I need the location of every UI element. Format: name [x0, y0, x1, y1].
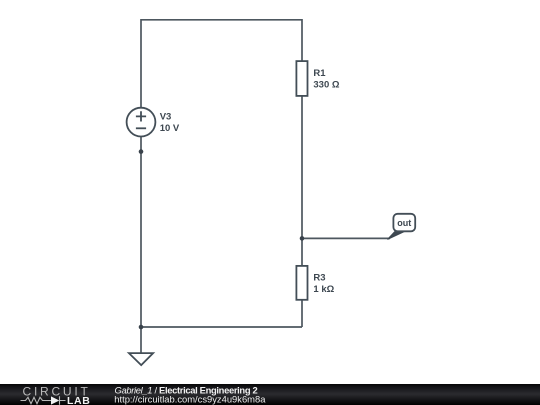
node junction bottom left	[139, 325, 144, 330]
net flag out pointer	[388, 231, 407, 240]
label R3 1 kohm	[313, 272, 334, 295]
label V3 10 V	[160, 111, 180, 134]
label R1 330 ohm	[313, 68, 339, 91]
wire left vertical upper	[140, 19, 142, 108]
svg-text:1 kΩ: 1 kΩ	[313, 284, 334, 295]
svg-text:out: out	[397, 218, 411, 228]
svg-text:V3: V3	[160, 111, 172, 122]
svg-text:330 Ω: 330 Ω	[313, 80, 339, 91]
svg-text:R3: R3	[313, 272, 325, 283]
resistor R3 symbol	[296, 266, 307, 300]
resistor R1 symbol	[296, 61, 307, 96]
node junction out	[300, 236, 305, 241]
wire top horizontal	[141, 19, 302, 21]
wire right vertical bottom	[301, 300, 303, 327]
node junction below V3	[139, 149, 144, 154]
wire out horizontal	[302, 237, 390, 239]
voltage source V1 symbol	[127, 108, 156, 137]
wire right vertical top	[301, 19, 303, 61]
svg-text:10 V: 10 V	[160, 123, 180, 134]
wire bottom horizontal	[141, 326, 302, 328]
ground symbol	[129, 353, 153, 365]
svg-text:R1: R1	[313, 68, 326, 79]
wire right vertical middle	[301, 96, 303, 266]
wire left vertical lower	[140, 137, 142, 327]
footer bar	[0, 384, 540, 405]
wire ground stub	[140, 327, 142, 353]
net flag out box	[393, 214, 415, 232]
